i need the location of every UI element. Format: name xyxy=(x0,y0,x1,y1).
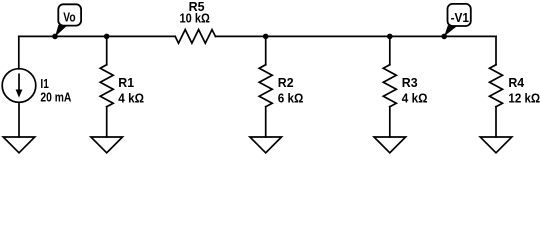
ground under R1 xyxy=(91,137,123,153)
current source I1 circle xyxy=(2,69,36,103)
svg-text:R2: R2 xyxy=(278,76,294,90)
ground under R4 xyxy=(480,137,512,153)
svg-text:12 kΩ: 12 kΩ xyxy=(508,91,540,105)
resistor R3 zigzag xyxy=(383,65,396,107)
resistor R5 zigzag xyxy=(175,30,215,44)
wire R3 top stub xyxy=(389,36,391,64)
svg-text:I1: I1 xyxy=(40,77,48,91)
svg-text:4 kΩ: 4 kΩ xyxy=(118,91,144,105)
ground under R3 xyxy=(374,137,406,153)
wire R2 bottom stub xyxy=(265,107,267,137)
svg-text:-V1: -V1 xyxy=(451,11,469,25)
label Vo pointer tail xyxy=(55,25,68,37)
node -V1 junction dot xyxy=(441,34,447,40)
svg-text:R1: R1 xyxy=(118,76,134,90)
label -V1 pointer tail xyxy=(444,25,457,36)
wire R4 bottom stub xyxy=(495,107,497,137)
wire R3 bottom stub xyxy=(389,107,391,137)
node R2 junction dot xyxy=(263,34,269,40)
resistor R2 zigzag xyxy=(259,65,272,107)
svg-text:Vo: Vo xyxy=(63,11,76,25)
current source I1 arrowhead xyxy=(16,90,23,98)
wire top horizontal left segment xyxy=(19,35,175,37)
wire R1 bottom stub xyxy=(106,107,108,137)
node Vo junction dot xyxy=(52,34,58,40)
resistor R1 zigzag xyxy=(100,65,113,107)
wire left vertical drop to current source xyxy=(18,36,20,68)
current source I1 arrow shaft xyxy=(18,74,20,92)
label -V1 box xyxy=(448,4,471,26)
ground under I1 xyxy=(3,137,35,153)
ground under R2 xyxy=(250,137,282,153)
label Vo box xyxy=(58,4,81,25)
svg-text:R3: R3 xyxy=(402,76,418,90)
wire R2 top stub xyxy=(265,36,267,64)
wire R1 top stub xyxy=(106,36,108,64)
resistor R4 zigzag xyxy=(490,65,503,107)
node R1 junction dot xyxy=(104,34,110,40)
svg-text:20 mA: 20 mA xyxy=(40,91,71,105)
svg-text:10 kΩ: 10 kΩ xyxy=(180,12,210,26)
wire top horizontal right segment xyxy=(215,35,496,37)
node R3 junction dot xyxy=(387,34,393,40)
wire R4 top stub from corner xyxy=(495,36,497,64)
svg-text:R4: R4 xyxy=(508,76,524,90)
svg-text:6 kΩ: 6 kΩ xyxy=(278,91,304,105)
svg-text:4 kΩ: 4 kΩ xyxy=(402,91,428,105)
wire below current source xyxy=(18,102,20,137)
